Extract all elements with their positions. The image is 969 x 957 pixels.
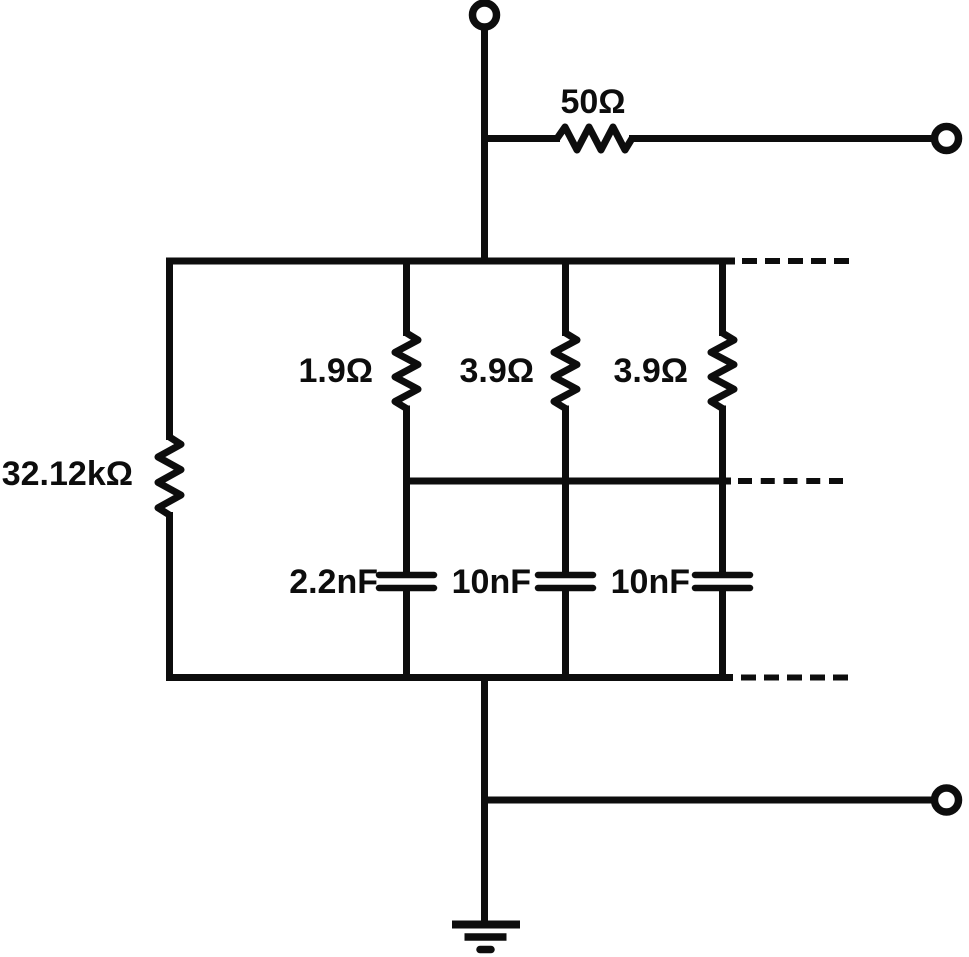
ground — [452, 925, 520, 950]
wire: branch 3 vertical bottom — [719, 588, 726, 677]
wire: branch 3 vertical top — [719, 261, 726, 336]
capacitor C3 10nF — [695, 575, 750, 588]
svg-text:50Ω: 50Ω — [560, 83, 625, 121]
wire: branch 3 vertical middle — [719, 406, 726, 573]
wire: top bus — [170, 258, 736, 265]
wire: branch 2 vertical bottom — [562, 588, 569, 677]
resistor R2 3.9ohm — [554, 333, 577, 408]
svg-text:10nF: 10nF — [452, 563, 531, 601]
resistor R3 3.9ohm — [711, 333, 734, 408]
terminal P2 (right port, output) — [935, 127, 959, 151]
svg-text:3.9Ω: 3.9Ω — [613, 352, 688, 390]
resistor R1 1.9ohm — [395, 333, 418, 408]
terminal P1 (top port) — [473, 3, 497, 27]
svg-text:2.2nF: 2.2nF — [289, 563, 378, 601]
svg-text:1.9Ω: 1.9Ω — [298, 352, 373, 390]
wire: branch 2 vertical top — [562, 261, 569, 336]
wire: left vertical (32.12k branch) top — [166, 258, 173, 441]
capacitor C1 2.2nF — [379, 575, 434, 588]
terminal P3 (bottom right port) — [935, 788, 959, 812]
capacitor C2 10nF — [538, 575, 593, 588]
wire: junction to 50 ohm resistor — [485, 135, 561, 142]
wire: bottom junction to right terminal — [485, 797, 935, 804]
wire: dashed continuation of middle bus — [738, 478, 844, 484]
wire: branch 2 vertical middle — [562, 406, 569, 573]
wire: bottom feed from bus down to ground — [481, 677, 488, 921]
resistor R 32.12kohm — [158, 437, 181, 515]
wire: branch 1 vertical top — [403, 261, 410, 336]
wire: branch 1 vertical middle (resistor to cap) — [403, 406, 410, 573]
wire: 50 ohm resistor to right terminal — [629, 135, 934, 142]
wire: left vertical (32.12k branch) bottom — [166, 512, 173, 681]
resistor 50ohm — [557, 127, 632, 150]
wire: branch 1 vertical bottom — [403, 588, 410, 677]
svg-text:10nF: 10nF — [611, 563, 690, 601]
wire: dashed continuation of bottom bus — [741, 675, 848, 681]
svg-text:32.12kΩ: 32.12kΩ — [2, 455, 133, 493]
wire: middle bus (node between R and C rows) — [407, 478, 732, 485]
wire: top terminal down to top bus — [481, 27, 488, 261]
wire: bottom bus — [166, 674, 733, 681]
svg-text:3.9Ω: 3.9Ω — [459, 352, 534, 390]
wire: dashed continuation of top bus — [742, 258, 849, 264]
